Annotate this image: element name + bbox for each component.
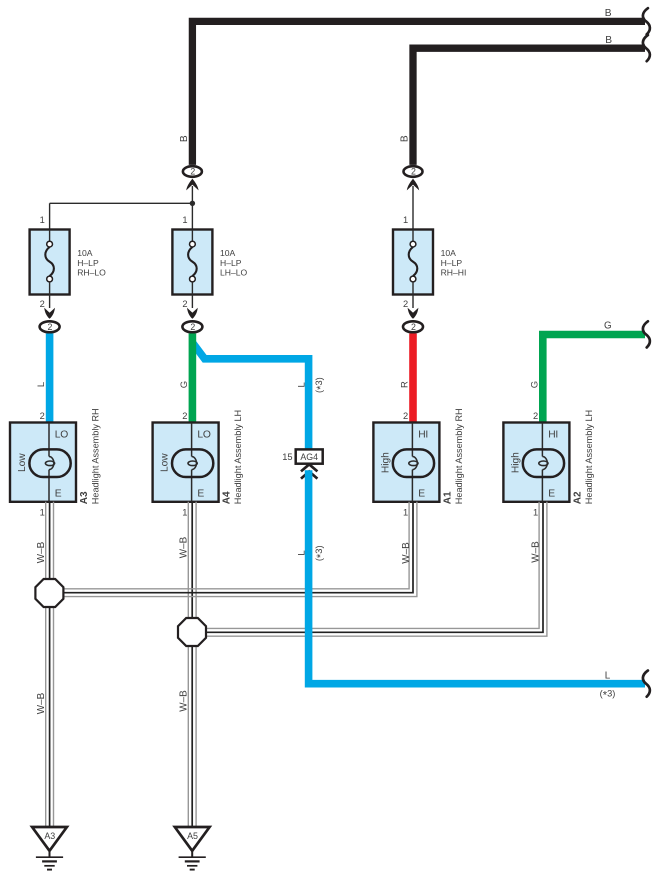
svg-text:1: 1	[403, 215, 408, 225]
svg-text:A1: A1	[442, 491, 453, 504]
svg-text:B: B	[605, 35, 612, 46]
svg-text:Headlight Assembly LH: Headlight Assembly LH	[584, 410, 594, 504]
svg-text:1: 1	[182, 215, 187, 225]
svg-text:(*3): (*3)	[600, 689, 616, 702]
svg-text:B: B	[179, 135, 190, 142]
svg-text:HI: HI	[418, 429, 428, 440]
svg-text:LH–LO: LH–LO	[220, 268, 248, 278]
svg-text:RH–HI: RH–HI	[441, 268, 467, 278]
svg-text:2: 2	[40, 299, 45, 309]
svg-text:W–B: W–B	[36, 541, 47, 563]
svg-text:A4: A4	[222, 491, 233, 504]
svg-text:L: L	[605, 670, 611, 681]
svg-text:Low: Low	[17, 453, 28, 472]
svg-text:B: B	[605, 8, 612, 19]
svg-text:A2: A2	[572, 491, 583, 504]
svg-text:Low: Low	[160, 453, 171, 472]
svg-text:H–LP: H–LP	[441, 258, 463, 268]
svg-text:2: 2	[48, 322, 53, 332]
svg-text:15: 15	[282, 452, 292, 462]
svg-text:W–B: W–B	[401, 542, 412, 564]
svg-text:2: 2	[40, 411, 45, 421]
svg-text:Headlight Assembly RH: Headlight Assembly RH	[90, 408, 100, 504]
svg-text:2: 2	[190, 322, 195, 332]
svg-text:A3: A3	[44, 831, 55, 841]
svg-text:1: 1	[40, 507, 45, 517]
svg-text:W–B: W–B	[36, 692, 47, 714]
svg-text:W–B: W–B	[178, 690, 189, 712]
svg-text:(*3): (*3)	[314, 377, 327, 393]
svg-text:10A: 10A	[220, 248, 236, 258]
svg-text:Headlight Assembly LH: Headlight Assembly LH	[233, 410, 243, 504]
svg-text:L: L	[296, 382, 307, 387]
svg-text:2: 2	[403, 299, 408, 309]
svg-text:2: 2	[182, 299, 187, 309]
svg-text:2: 2	[411, 167, 416, 177]
svg-text:10A: 10A	[77, 248, 93, 258]
svg-text:H–LP: H–LP	[220, 258, 242, 268]
svg-text:1: 1	[40, 215, 45, 225]
svg-text:2: 2	[403, 411, 408, 421]
svg-text:G: G	[529, 381, 540, 388]
svg-text:10A: 10A	[441, 248, 457, 258]
svg-text:2: 2	[190, 167, 195, 177]
svg-text:LO: LO	[197, 429, 210, 440]
svg-text:2: 2	[411, 322, 416, 332]
svg-text:E: E	[418, 488, 425, 499]
svg-text:HI: HI	[548, 429, 558, 440]
svg-text:2: 2	[182, 411, 187, 421]
svg-text:Headlight Assembly RH: Headlight Assembly RH	[454, 408, 464, 504]
svg-text:L: L	[36, 382, 47, 387]
svg-text:High: High	[380, 452, 391, 473]
svg-text:E: E	[548, 488, 555, 499]
svg-text:B: B	[400, 135, 411, 142]
svg-text:E: E	[197, 488, 204, 499]
svg-text:High: High	[510, 452, 521, 473]
svg-text:1: 1	[533, 507, 538, 517]
svg-text:1: 1	[403, 507, 408, 517]
svg-text:W–B: W–B	[531, 541, 542, 563]
svg-text:2: 2	[533, 411, 538, 421]
svg-text:LO: LO	[55, 429, 68, 440]
svg-text:AG4: AG4	[300, 452, 318, 462]
svg-text:A3: A3	[79, 491, 90, 504]
svg-text:1: 1	[182, 507, 187, 517]
svg-text:G: G	[604, 320, 612, 331]
svg-text:R: R	[400, 381, 411, 388]
svg-text:E: E	[55, 488, 62, 499]
svg-text:G: G	[179, 381, 190, 388]
svg-text:W–B: W–B	[178, 536, 189, 558]
svg-text:RH–LO: RH–LO	[77, 268, 106, 278]
svg-text:(*3): (*3)	[314, 545, 327, 561]
svg-text:H–LP: H–LP	[77, 258, 99, 268]
svg-text:A5: A5	[187, 831, 198, 841]
